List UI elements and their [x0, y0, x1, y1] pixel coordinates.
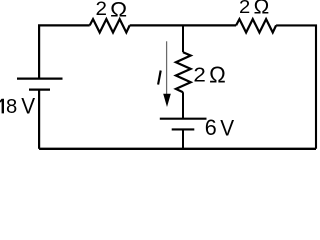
- resistor R3 2-ohm middle vertical zigzag: [176, 52, 191, 92]
- svg-text:8: 8: [6, 95, 17, 118]
- svg-text:2: 2: [95, 0, 106, 20]
- label 2 ohm top-right (R2 value): [239, 0, 269, 18]
- wire bottom rail: [39, 148, 316, 150]
- svg-text:Ω: Ω: [209, 62, 226, 87]
- battery B2 6V long plate (positive): [160, 118, 207, 120]
- label 6 V: [205, 114, 235, 140]
- label 2 ohm top-left (R1 value): [95, 0, 127, 21]
- svg-text:2: 2: [193, 62, 205, 86]
- wire middle branch upper: [182, 25, 184, 52]
- resistor R1 2-ohm top-left zigzag: [90, 19, 130, 32]
- label 2 ohm middle (R3 value): [193, 62, 225, 87]
- current arrow I head: [163, 94, 171, 107]
- wire left vertical lower: [38, 90, 40, 149]
- label 18 V: [0, 94, 36, 119]
- svg-text:V: V: [21, 94, 36, 119]
- svg-text:Ω: Ω: [254, 0, 270, 18]
- current arrow I shaft: [166, 41, 168, 95]
- svg-text:V: V: [220, 114, 234, 140]
- wire middle branch lower: [182, 129, 184, 148]
- svg-text:6: 6: [205, 115, 217, 141]
- svg-text:2: 2: [239, 0, 250, 18]
- resistor R2 2-ohm top-right zigzag: [236, 19, 276, 32]
- svg-text:Ω: Ω: [110, 0, 127, 21]
- label I (italic current symbol, drawn slanted bar): [158, 71, 161, 85]
- digit 1 of 18 V (drawn, flag clipped at image edge): [0, 99, 4, 114]
- wire top rail left + left vertical upper: [39, 25, 90, 78]
- battery B2 6V short plate (negative): [172, 128, 195, 130]
- wire middle branch between R3 and battery B2: [182, 92, 184, 119]
- battery B1 18V short plate (negative): [29, 88, 50, 90]
- wire top rail right + right vertical: [276, 25, 316, 148]
- wire top rail middle segment: [130, 24, 236, 26]
- battery B1 18V long plate (positive): [17, 77, 63, 79]
